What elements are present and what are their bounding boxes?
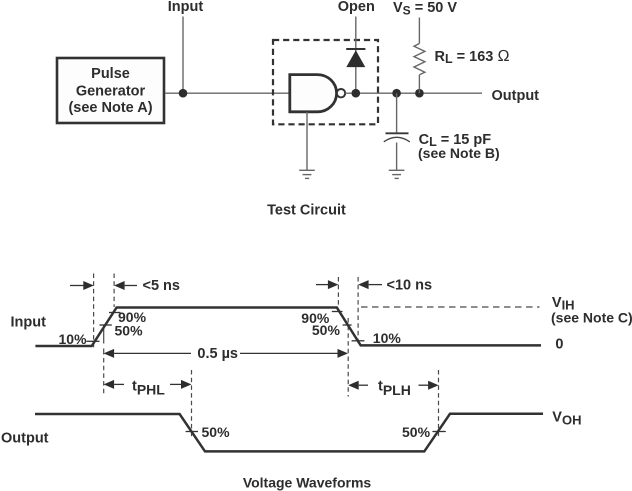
svg-text:50%: 50%: [402, 424, 431, 440]
svg-text:(see Note A): (see Note A): [68, 100, 152, 116]
svg-text:VOH: VOH: [552, 410, 581, 428]
svg-text:Input: Input: [11, 315, 47, 331]
svg-text:Output: Output: [1, 430, 49, 446]
svg-text:<10 ns: <10 ns: [387, 278, 433, 294]
svg-text:Voltage Waveforms: Voltage Waveforms: [243, 475, 372, 491]
svg-text:tPLH: tPLH: [378, 379, 411, 398]
svg-text:10%: 10%: [59, 331, 88, 347]
svg-text:50%: 50%: [312, 322, 341, 338]
svg-text:50%: 50%: [202, 424, 231, 440]
svg-text:Generator: Generator: [76, 84, 146, 100]
svg-text:Open: Open: [338, 0, 375, 15]
svg-text:(see Note B): (see Note B): [418, 145, 500, 161]
svg-text:tPHL: tPHL: [132, 378, 165, 397]
svg-text:Pulse: Pulse: [91, 66, 130, 82]
svg-text:10%: 10%: [373, 330, 402, 346]
svg-text:0.5 µs: 0.5 µs: [197, 346, 238, 362]
svg-text:<5 ns: <5 ns: [143, 278, 180, 294]
svg-text:VS = 50 V: VS = 50 V: [393, 0, 457, 18]
svg-text:0: 0: [555, 337, 563, 353]
svg-text:Test Circuit: Test Circuit: [267, 203, 346, 219]
svg-text:50%: 50%: [115, 323, 144, 339]
svg-text:Input: Input: [168, 0, 204, 15]
svg-text:Output: Output: [492, 88, 540, 104]
svg-text:(see Note C): (see Note C): [551, 310, 632, 326]
